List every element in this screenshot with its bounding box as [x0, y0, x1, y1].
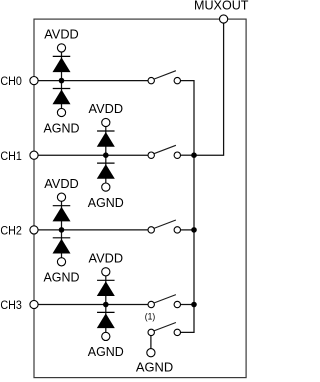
terminal AGND CH1 — [102, 183, 110, 191]
terminal AGND CH2 — [57, 258, 65, 266]
svg-text:CH1: CH1 — [0, 151, 22, 163]
wire switch S0 output to mux bus — [181, 81, 195, 305]
svg-text:(1): (1) — [145, 312, 155, 322]
svg-text:CH3: CH3 — [0, 300, 22, 312]
diode D3b to AGND (CH3) — [97, 312, 115, 328]
switch S3 lever — [154, 295, 176, 303]
svg-text:AVDD: AVDD — [89, 251, 124, 265]
svg-text:AVDD: AVDD — [44, 28, 79, 42]
svg-text:AGND: AGND — [88, 345, 124, 359]
svg-text:MUXOUT: MUXOUT — [194, 0, 249, 12]
terminal AGND CH3 — [102, 332, 110, 340]
terminal AVDD CH3 — [102, 268, 110, 276]
terminal CH1 — [30, 151, 38, 159]
terminal AVDD CH1 — [102, 118, 110, 126]
wire switch S1 output — [181, 154, 195, 156]
switch S1 contact right — [174, 152, 180, 158]
svg-text:AGND: AGND — [136, 360, 173, 375]
diode D0b to AGND (CH0) — [53, 89, 71, 105]
wire switch S4 output to bus — [181, 305, 195, 333]
wire MUXOUT drop to bus — [194, 21, 224, 155]
junction dot CH2 diodes — [59, 227, 65, 233]
svg-text:AVDD: AVDD — [89, 102, 124, 116]
svg-text:CH0: CH0 — [0, 76, 22, 88]
junction dot CH1 diodes — [103, 152, 109, 158]
diode D2b to AGND (CH2) — [53, 238, 71, 254]
terminal AVDD CH0 — [57, 44, 65, 52]
switch S1 lever — [154, 145, 176, 153]
switch S1 contact left — [148, 152, 154, 158]
terminal AGND CH0 — [57, 108, 65, 116]
diode stack CH0 vertical wire — [61, 48, 63, 113]
wire switch S2 output — [181, 229, 195, 231]
terminal AGND S4 — [147, 349, 155, 357]
terminal CH3 — [30, 300, 38, 308]
wire switch S4 to AGND terminal — [150, 335, 152, 353]
switch S2 lever — [154, 220, 176, 228]
switch S0 contact left — [148, 77, 154, 83]
wire switch S3 output — [181, 304, 195, 306]
diode D2a to AVDD (CH2) — [53, 206, 71, 222]
switch S4 contact right — [174, 329, 180, 335]
wire CH1 row — [34, 154, 148, 156]
svg-text:AGND: AGND — [88, 196, 124, 210]
diode D0a to AVDD (CH0) — [53, 56, 71, 72]
switch S2 contact right — [174, 227, 180, 233]
switch S0 lever — [154, 71, 176, 79]
switch S0 contact right — [174, 77, 180, 83]
svg-text:AGND: AGND — [44, 271, 80, 285]
diode stack CH2 vertical wire — [61, 197, 63, 262]
junction dot bus CH3 — [191, 302, 197, 308]
junction dot CH3 diodes — [103, 302, 109, 308]
switch S4 lever — [154, 323, 176, 331]
switch S4 contact left — [148, 329, 154, 335]
wire CH3 row — [34, 304, 148, 306]
diode D3a to AVDD (CH3) — [97, 280, 115, 296]
switch S3 contact left — [148, 301, 154, 307]
terminal AVDD CH2 — [57, 193, 65, 201]
chip boundary box — [34, 19, 246, 378]
diode D1a to AVDD (CH1) — [97, 131, 115, 147]
wire CH2 row — [34, 229, 148, 231]
junction dot CH0 diodes — [59, 78, 65, 84]
terminal CH2 — [30, 226, 38, 234]
svg-text:AGND: AGND — [44, 121, 80, 135]
diode D1b to AGND (CH1) — [97, 163, 115, 179]
terminal MUXOUT — [220, 15, 228, 23]
junction dot bus CH1 — [191, 152, 197, 158]
terminal CH0 — [30, 77, 38, 85]
svg-text:CH2: CH2 — [0, 226, 22, 238]
diode stack CH3 vertical wire — [105, 272, 107, 337]
switch S3 contact right — [174, 301, 180, 307]
svg-text:AVDD: AVDD — [44, 177, 79, 191]
junction dot bus CH2 — [191, 227, 197, 233]
switch S2 contact left — [148, 227, 154, 233]
diode stack CH1 vertical wire — [105, 123, 107, 188]
wire CH0 row — [34, 80, 148, 82]
